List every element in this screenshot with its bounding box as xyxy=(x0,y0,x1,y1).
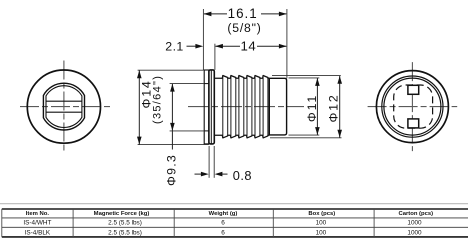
dimension 16.1 right arrow xyxy=(279,12,287,17)
phi9.3 dimension line xyxy=(171,84,173,150)
svg-text:(5/8"): (5/8") xyxy=(227,21,261,35)
phi12 top extension line xyxy=(272,75,341,77)
0.8 right arrow xyxy=(215,172,223,177)
0.8 left leader line xyxy=(195,173,202,175)
extension line thread start (14/2.1) xyxy=(214,44,216,70)
thread crest line 4b xyxy=(251,77,253,136)
svg-text:IS-4/WHT: IS-4/WHT xyxy=(23,220,51,227)
dimension 14 right arrow xyxy=(279,44,287,49)
svg-text:100: 100 xyxy=(316,220,327,227)
back view inner circle xyxy=(384,78,441,135)
phi11 bottom extension line xyxy=(289,134,320,136)
phi12 bottom arrow xyxy=(337,130,342,138)
svg-text:0.8: 0.8 xyxy=(233,168,252,183)
front view outer circle (flange OD) xyxy=(27,70,100,143)
svg-text:Φ11: Φ11 xyxy=(305,94,319,122)
table bottom border xyxy=(2,236,468,238)
phi12 top arrow xyxy=(337,76,342,84)
extension line left (16.1/2.1) xyxy=(202,9,204,70)
svg-text:IS-4/BLK: IS-4/BLK xyxy=(25,229,51,236)
0.8 right leader line xyxy=(222,173,228,175)
phi12 dimension line xyxy=(339,76,341,138)
light gray rule above table xyxy=(0,203,468,205)
svg-text:14: 14 xyxy=(240,39,256,54)
phi11 top extension line xyxy=(289,77,320,79)
thread crest line 1a xyxy=(222,76,224,138)
0.8 left extension line xyxy=(208,146,210,178)
phi11 dimension line xyxy=(316,78,318,135)
front view magnet housing inner profile xyxy=(46,86,82,128)
table column line 1 xyxy=(72,209,74,237)
table column line 2 xyxy=(173,209,175,237)
dimension 2.1 arrow xyxy=(195,44,203,49)
side view collar band xyxy=(209,70,214,144)
svg-text:6: 6 xyxy=(221,220,225,227)
dimension 2.1 leader line xyxy=(187,45,197,47)
back view top lug xyxy=(408,85,419,94)
thread crest line 3b xyxy=(243,77,245,136)
phi14 bottom extension line xyxy=(138,144,209,146)
phi9.3 top arrow xyxy=(170,84,175,92)
side view rear body xyxy=(269,78,286,135)
svg-text:2.1: 2.1 xyxy=(165,40,183,54)
front view magnet housing outer profile xyxy=(43,83,84,130)
svg-text:100: 100 xyxy=(316,229,327,236)
dimension 14 line right segment xyxy=(257,45,286,47)
svg-text:Item No.: Item No. xyxy=(26,211,50,217)
dimension 14 left arrow xyxy=(215,44,223,49)
phi11 top arrow xyxy=(315,78,320,86)
back view centerline vertical xyxy=(411,62,413,151)
back view centerline horizontal xyxy=(368,106,458,108)
table top border xyxy=(2,208,468,210)
thread crest line 4a xyxy=(246,76,248,138)
phi12 bottom extension line xyxy=(270,137,342,139)
table column line 4 xyxy=(373,209,375,237)
thread crest line 5b xyxy=(259,77,261,136)
front view centerline horizontal xyxy=(20,106,110,108)
thread crest line 5a xyxy=(254,76,256,138)
svg-text:Φ9.3: Φ9.3 xyxy=(165,154,179,186)
svg-text:16.1: 16.1 xyxy=(228,6,258,21)
table left border xyxy=(1,209,3,237)
0.8 left arrow xyxy=(201,172,209,177)
front view slot upper line xyxy=(46,100,82,102)
back view middle circle xyxy=(382,76,443,137)
thread crest line 1b xyxy=(227,77,229,136)
side view thread silhouette bottom xyxy=(214,135,269,138)
phi11 bottom arrow xyxy=(315,127,320,135)
side view thread silhouette top xyxy=(214,76,269,79)
svg-text:Magnetic Force (kg): Magnetic Force (kg) xyxy=(94,211,150,217)
extension line right (16.1/14) xyxy=(286,9,288,78)
thread crest line 2a xyxy=(230,76,232,138)
table row separator xyxy=(2,226,468,228)
side view body left boundary xyxy=(268,78,270,135)
side view flange plate xyxy=(204,70,209,144)
dimension 16.1 line right segment xyxy=(261,13,286,15)
svg-text:Carton (pcs): Carton (pcs) xyxy=(398,211,433,217)
dimension 14 line left segment xyxy=(216,45,241,47)
phi14 bottom arrow xyxy=(137,137,142,145)
side view centerline xyxy=(188,106,304,108)
svg-text:2.5 (5.5 lbs): 2.5 (5.5 lbs) xyxy=(108,220,142,227)
phi9.3 top extension line xyxy=(170,83,204,85)
phi14 top arrow xyxy=(137,70,142,78)
side view flange recess upper line xyxy=(204,83,209,85)
svg-text:1000: 1000 xyxy=(407,220,422,227)
dimension 16.1 line left segment xyxy=(204,13,227,15)
thread crest line 3a xyxy=(238,76,240,138)
svg-text:1000: 1000 xyxy=(407,229,422,236)
front view slot lower line xyxy=(46,111,82,113)
dimension 16.1 left arrow xyxy=(204,12,212,17)
table column line 3 xyxy=(272,209,274,237)
svg-text:6: 6 xyxy=(221,229,225,236)
svg-text:(35/64"): (35/64") xyxy=(151,75,163,124)
thread crest line 6b xyxy=(267,77,269,136)
thread crest line 2b xyxy=(235,77,237,136)
phi9.3 bottom extension line xyxy=(170,130,205,132)
svg-text:Box (pcs): Box (pcs) xyxy=(308,211,335,217)
phi14 dimension line xyxy=(138,70,140,144)
0.8 right extension line xyxy=(213,146,215,178)
thread crest line 6a xyxy=(262,76,264,138)
back view bottom lug xyxy=(408,119,419,128)
phi9.3 bottom arrow xyxy=(170,123,175,131)
phi14 top extension line xyxy=(138,69,204,71)
side view collar inner line xyxy=(210,70,212,143)
table header separator xyxy=(2,217,468,219)
svg-text:Φ12: Φ12 xyxy=(327,93,341,122)
side view flange recess lower line xyxy=(204,130,209,132)
back view outer circle xyxy=(376,71,448,143)
back view hidden magnet outline (dashed) xyxy=(394,85,433,128)
svg-text:2.5 (5.5 lbs): 2.5 (5.5 lbs) xyxy=(108,229,142,236)
svg-text:Weight (g): Weight (g) xyxy=(209,211,238,217)
front view centerline vertical xyxy=(63,61,65,151)
